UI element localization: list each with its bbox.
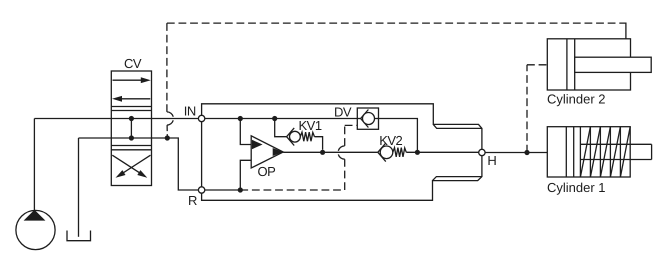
valve CV body xyxy=(111,71,151,186)
wire H to Cylinder 1 xyxy=(485,152,547,154)
op-amp OP xyxy=(251,136,283,168)
wire R to OP branch xyxy=(205,189,241,191)
wire DV output down to KV2 line xyxy=(379,119,418,153)
cylinder 1 body xyxy=(547,127,630,177)
wire KV2 to H xyxy=(406,151,478,153)
svg-text:DV: DV xyxy=(334,105,352,120)
node junction CV lower port xyxy=(165,135,170,140)
pilot line hop over OP output line xyxy=(338,146,345,159)
node branch KV1 xyxy=(272,116,277,121)
node branch OP lower xyxy=(238,187,243,192)
svg-text:OP: OP xyxy=(258,164,276,179)
cylinder 1 piston rod xyxy=(580,144,651,159)
pilot line dashed from CV/R node up and across top to Cylinder 2 xyxy=(167,23,621,112)
manifold outline bottom from R to H xyxy=(202,156,482,201)
wire OP output to KV2 xyxy=(283,151,378,153)
check valve KV1 xyxy=(287,128,315,146)
valve DV pilot operated check valve xyxy=(357,108,378,129)
wire T line (y=138) tank corner to junction xyxy=(79,137,168,139)
node R xyxy=(198,187,204,193)
tank T1 xyxy=(67,231,91,241)
pilot line solid corner into Cylinder 2 xyxy=(621,23,626,39)
svg-text:IN: IN xyxy=(184,103,196,118)
cylinder 2 body xyxy=(547,39,630,90)
wire IN to R xyxy=(201,122,203,187)
node DV rejoin xyxy=(415,150,420,155)
wire pump outlet to CV upper line xyxy=(33,119,35,211)
wire IN to DV xyxy=(205,118,357,120)
cylinder 2 piston rod xyxy=(575,57,652,72)
pilot line short dashed into junction xyxy=(166,125,168,135)
svg-text:Cylinder 1: Cylinder 1 xyxy=(547,180,606,195)
wire KV1 branch from P line xyxy=(275,119,287,137)
svg-text:CV: CV xyxy=(124,56,142,71)
svg-text:KV2: KV2 xyxy=(379,133,402,148)
node KV1 rejoin xyxy=(320,150,325,155)
check valve KV2 xyxy=(378,143,407,162)
cylinder 1 return spring xyxy=(580,127,630,177)
pilot line hop over P line xyxy=(167,112,174,125)
svg-text:H: H xyxy=(487,153,496,168)
CV top position arrow right xyxy=(113,77,151,83)
node H xyxy=(479,149,485,155)
node Cylinder 2 pilot join xyxy=(524,150,529,155)
pump P1 xyxy=(16,210,55,250)
wire OP lower input xyxy=(240,160,251,190)
wire KV1 to OP output xyxy=(315,137,323,150)
node IN xyxy=(198,115,204,121)
pilot line dashed R to DV xyxy=(240,125,357,190)
manifold outline top from IN to H xyxy=(202,104,482,150)
wire junction to R node xyxy=(167,138,198,190)
CV centre position blocked ports xyxy=(129,116,134,141)
svg-text:Cylinder 2: Cylinder 2 xyxy=(547,91,606,106)
svg-text:KV1: KV1 xyxy=(299,118,322,133)
svg-text:R: R xyxy=(188,193,197,208)
wire tank to CV lower line xyxy=(78,138,80,237)
CV top position arrow left xyxy=(112,96,150,102)
node branch OP upper xyxy=(238,116,243,121)
wire P line (y=118.5) pump corner to IN node xyxy=(34,118,198,120)
pilot line dashed H line to Cylinder 2 rod side xyxy=(527,65,547,153)
wire OP upper input xyxy=(240,119,251,145)
CV bottom position crossed arrows xyxy=(112,155,150,178)
